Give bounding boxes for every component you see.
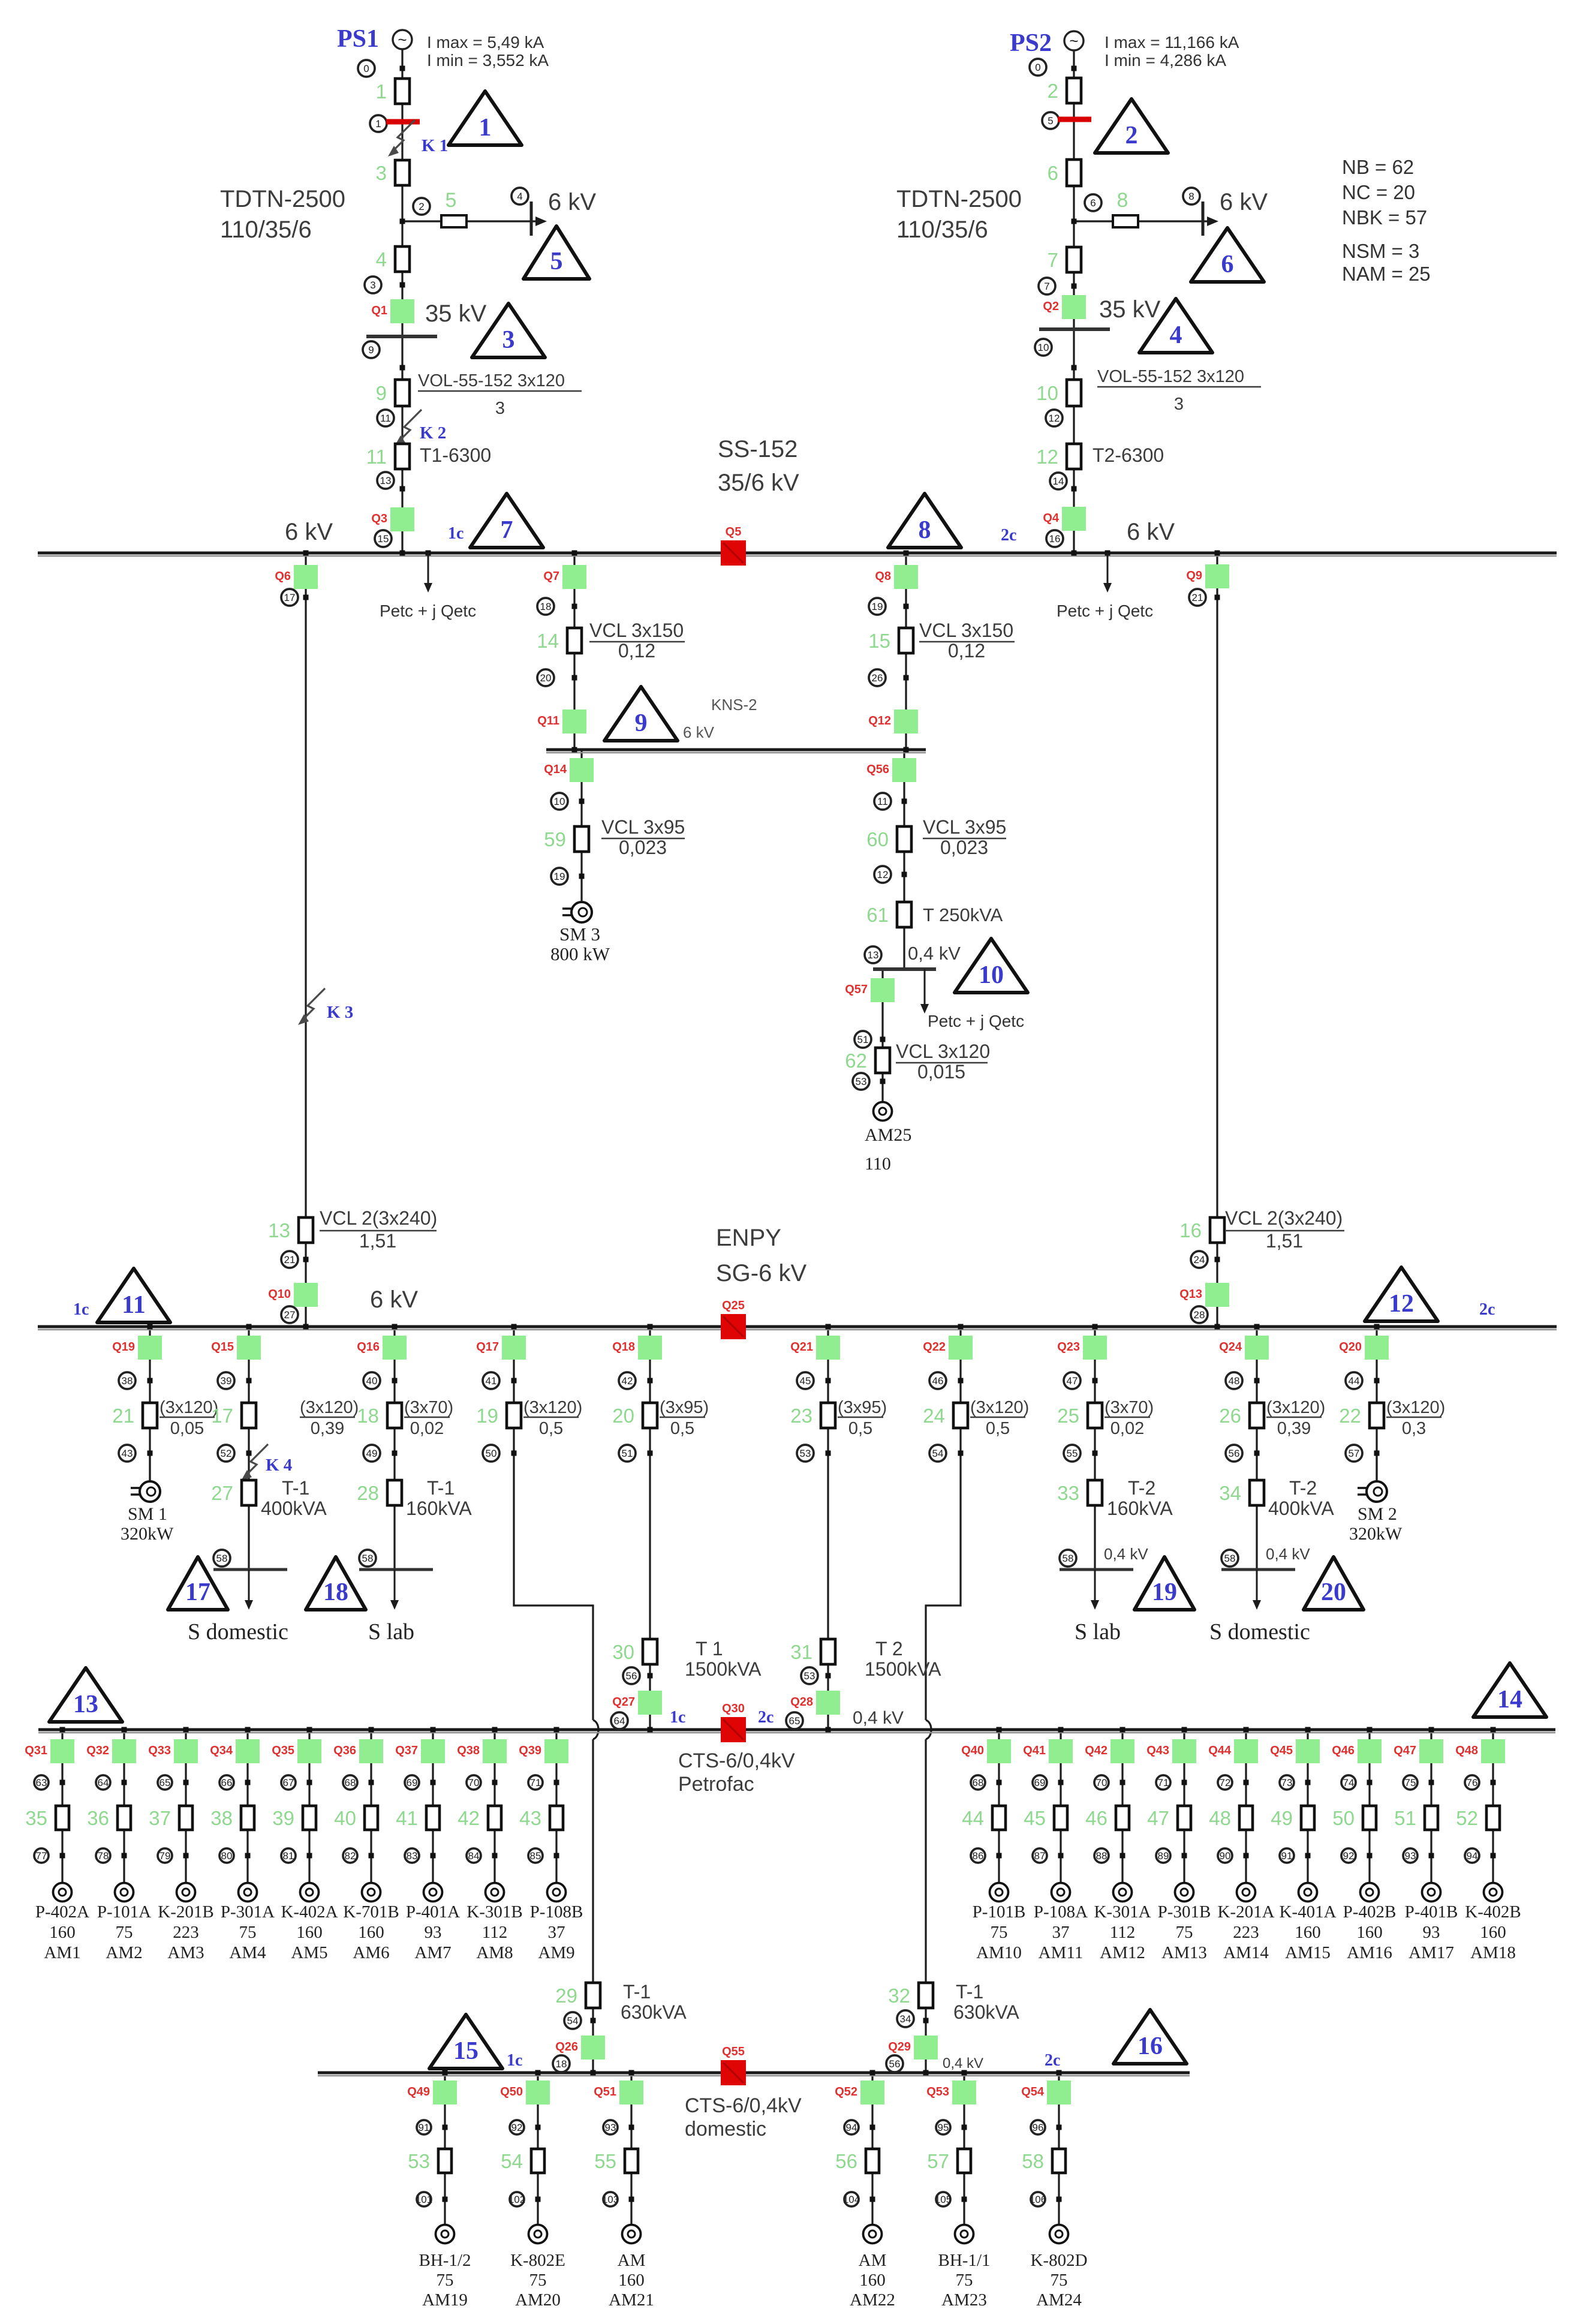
branch 44 [962, 1806, 1006, 1830]
svg-text:1c: 1c [670, 1708, 685, 1727]
label cable (3x120) Q15 [300, 1398, 359, 1438]
svg-text:60: 60 [866, 828, 889, 850]
label VCL 3x150 right [919, 620, 1015, 662]
junction [1305, 1780, 1311, 1785]
svg-text:0,5: 0,5 [539, 1419, 563, 1438]
svg-text:56: 56 [1229, 1448, 1240, 1459]
motor SM 1 [131, 1481, 160, 1502]
svg-text:94: 94 [846, 2122, 857, 2133]
svg-text:T 1: T 1 [696, 1638, 723, 1659]
node 10 [1035, 339, 1052, 356]
svg-text:75: 75 [529, 2271, 547, 2290]
breaker Q37 [395, 1739, 445, 1763]
node 39 [218, 1372, 234, 1389]
node 86 [971, 1848, 985, 1863]
svg-text:Q38: Q38 [457, 1744, 480, 1757]
node 15 [375, 530, 392, 547]
svg-text:Q34: Q34 [210, 1744, 233, 1757]
junction [902, 872, 907, 877]
svg-text:(3x120): (3x120) [159, 1398, 218, 1417]
junction [369, 1780, 374, 1785]
svg-text:10: 10 [1036, 382, 1058, 404]
junction [1491, 1853, 1496, 1859]
junction [572, 604, 577, 609]
junction on domestic bus [591, 2070, 596, 2076]
branch 3 [376, 160, 410, 185]
node 21 [281, 1251, 298, 1268]
junction [246, 1451, 252, 1456]
svg-text:AM20: AM20 [515, 2290, 561, 2310]
svg-text:71: 71 [1158, 1777, 1169, 1788]
svg-text:AM21: AM21 [609, 2290, 654, 2310]
svg-text:6 kV: 6 kV [1127, 519, 1175, 545]
svg-text:12: 12 [1389, 1290, 1414, 1318]
svg-text:VCL 3x150: VCL 3x150 [919, 620, 1013, 641]
svg-text:Q40: Q40 [961, 1744, 984, 1757]
wire load leg AM20 [537, 2073, 538, 2226]
svg-text:41: 41 [486, 1375, 497, 1387]
node 73 [1280, 1775, 1294, 1790]
motor SM 3 [562, 902, 592, 922]
junction [60, 1853, 65, 1859]
svg-text:17: 17 [284, 592, 296, 603]
junction [958, 1451, 964, 1456]
svg-text:Q2: Q2 [1043, 300, 1059, 313]
svg-text:630kVA: 630kVA [953, 2001, 1019, 2023]
junction on load bus [122, 1727, 127, 1733]
svg-text:K-301B: K-301B [467, 1902, 522, 1922]
branch 31 T2 [790, 1639, 835, 1664]
svg-text:400kVA: 400kVA [1268, 1498, 1334, 1519]
node 8 [1183, 188, 1200, 205]
wire ENPY feeder x=1084 [649, 1327, 651, 1730]
svg-text:Q42: Q42 [1085, 1744, 1107, 1757]
svg-text:Q27: Q27 [612, 1695, 635, 1709]
svg-text:Q52: Q52 [835, 2085, 857, 2098]
junction [148, 1451, 153, 1456]
svg-text:(3x70): (3x70) [404, 1398, 453, 1417]
svg-text:32: 32 [888, 1985, 910, 2007]
svg-text:5: 5 [1048, 115, 1053, 127]
branch 8 [1113, 189, 1138, 227]
svg-text:6 kV: 6 kV [285, 519, 333, 545]
marker triangle 8 [888, 494, 961, 548]
breaker Q7 [543, 565, 586, 589]
svg-text:(3x120): (3x120) [300, 1398, 359, 1417]
junction [648, 1673, 653, 1679]
svg-text:82: 82 [345, 1850, 356, 1862]
load arrow Petc left [424, 553, 432, 593]
svg-text:Q56: Q56 [866, 763, 889, 776]
junction [60, 1780, 65, 1785]
node 106 [1030, 2192, 1046, 2206]
node 11 [377, 410, 394, 426]
marker triangle 11 [97, 1268, 170, 1322]
svg-text:14: 14 [1053, 476, 1064, 487]
load AM9 [547, 1883, 566, 1902]
svg-text:VOL-55-152 3x120: VOL-55-152 3x120 [1097, 367, 1244, 386]
svg-text:92: 92 [511, 2122, 523, 2133]
wire SM2 tail [1376, 1453, 1377, 1481]
wire load leg AM22 [871, 2073, 873, 2226]
svg-text:2c: 2c [758, 1708, 774, 1727]
node 54 [564, 2012, 581, 2029]
wire load leg AM14 [1245, 1730, 1247, 1883]
load AM11 [1052, 1883, 1070, 1902]
junction [870, 2197, 875, 2202]
svg-text:Q45: Q45 [1270, 1744, 1293, 1757]
breaker Q39 [519, 1739, 568, 1763]
branch 34 [1219, 1480, 1264, 1505]
svg-text:Q14: Q14 [544, 763, 567, 776]
wire ENPY feeder x=1381 [827, 1327, 829, 1730]
node 24 [1191, 1251, 1208, 1268]
junction on ENPY bus [1093, 1324, 1098, 1330]
branch 12 [1036, 444, 1081, 469]
svg-text:57: 57 [927, 2150, 949, 2172]
svg-text:AM18: AM18 [1470, 1943, 1516, 1962]
branch 1 [376, 79, 410, 104]
node 13 [865, 946, 881, 963]
junction [629, 2197, 634, 2202]
junction on load bus [245, 1727, 251, 1733]
load arrow S domestic [1253, 1570, 1261, 1610]
junction on domestic bus [443, 2070, 448, 2076]
load AM22 [863, 2225, 882, 2244]
junction [904, 604, 909, 609]
svg-text:71: 71 [530, 1777, 541, 1788]
svg-text:Q6: Q6 [275, 570, 291, 583]
wire load leg AM10 [998, 1730, 1000, 1883]
svg-text:27: 27 [284, 1309, 296, 1321]
wire load leg AM16 [1368, 1730, 1370, 1883]
svg-text:Q39: Q39 [519, 1744, 541, 1757]
node 58 [1060, 1550, 1076, 1567]
breaker Q19 [112, 1336, 162, 1360]
svg-text:160: 160 [1295, 1923, 1321, 1942]
svg-text:0,4 kV: 0,4 kV [1104, 1545, 1148, 1563]
junction on ENPY bus [1374, 1324, 1380, 1330]
marker triangle 7 [470, 494, 543, 548]
svg-text:54: 54 [501, 2150, 523, 2172]
svg-text:P-101B: P-101B [973, 1902, 1026, 1922]
svg-text:20: 20 [612, 1405, 634, 1427]
svg-text:18: 18 [540, 601, 552, 612]
branch 17 [211, 1403, 256, 1428]
svg-text:29: 29 [555, 1985, 577, 2007]
svg-text:50: 50 [486, 1448, 497, 1459]
svg-text:39: 39 [272, 1807, 294, 1829]
branch 11 [366, 444, 410, 469]
node 81 [281, 1848, 296, 1863]
breaker Q18 [612, 1336, 662, 1360]
svg-text:(3x120): (3x120) [970, 1398, 1029, 1417]
node 38 [119, 1372, 136, 1389]
svg-text:37: 37 [548, 1923, 565, 1942]
svg-text:6: 6 [1048, 162, 1058, 184]
svg-text:6: 6 [1090, 197, 1096, 209]
svg-text:T1-6300: T1-6300 [420, 444, 491, 466]
junction on load bus [369, 1727, 374, 1733]
svg-text:TDTN-2500: TDTN-2500 [220, 186, 345, 212]
svg-text:PS2: PS2 [1010, 29, 1052, 57]
junction on ENPY bus [1254, 1324, 1260, 1330]
svg-text:S domestic: S domestic [188, 1619, 288, 1644]
svg-text:95: 95 [938, 2122, 949, 2133]
node 66 [219, 1775, 234, 1790]
fault marker bar at node 1 [386, 119, 420, 125]
svg-text:5: 5 [446, 189, 457, 212]
junction on domestic bus [629, 2070, 634, 2076]
svg-text:T-1: T-1 [427, 1477, 455, 1499]
wire branch 5 horizontal to 6kV stub [402, 220, 543, 222]
label VCL 3x150 left [589, 620, 685, 662]
branch 42 [458, 1806, 501, 1830]
svg-text:7: 7 [501, 516, 513, 544]
svg-text:Q18: Q18 [612, 1340, 635, 1354]
junction [307, 1780, 312, 1785]
node 34 [897, 2010, 914, 2027]
svg-text:19: 19 [554, 871, 565, 882]
branch 22 [1339, 1403, 1384, 1428]
svg-text:AM17: AM17 [1409, 1943, 1454, 1962]
svg-text:Q49: Q49 [407, 2085, 430, 2098]
bus SS-152 6 kV [38, 553, 1557, 556]
branch 38 [210, 1806, 254, 1830]
svg-text:160: 160 [618, 2271, 645, 2290]
node 92 [1341, 1848, 1356, 1863]
junction [148, 1378, 153, 1384]
label cable (3x120) Q17 [523, 1398, 582, 1438]
branch 32 T-1 630 [888, 1983, 933, 2008]
svg-text:VCL 3x120: VCL 3x120 [896, 1041, 990, 1062]
breaker Q35 [272, 1739, 321, 1763]
svg-text:K-402A: K-402A [281, 1902, 338, 1922]
node 70 [1094, 1775, 1109, 1790]
breaker Q31 [25, 1739, 74, 1763]
node 102 [508, 2192, 525, 2206]
node 74 [1341, 1775, 1356, 1790]
svg-text:53: 53 [804, 1670, 815, 1682]
junction [826, 1378, 831, 1384]
svg-text:AM1: AM1 [44, 1943, 80, 1962]
junction on load bus [183, 1727, 189, 1733]
section breaker Q55 [721, 2045, 746, 2085]
svg-text:37: 37 [1052, 1923, 1070, 1942]
node 67 [281, 1775, 296, 1790]
junction [554, 1780, 559, 1785]
svg-text:0,4 kV: 0,4 kV [1266, 1545, 1310, 1563]
junction on load bus [997, 1727, 1002, 1733]
svg-text:K-402B: K-402B [1465, 1902, 1521, 1922]
svg-text:1,51: 1,51 [1266, 1230, 1303, 1252]
svg-text:0,39: 0,39 [311, 1419, 344, 1438]
svg-text:P-301B: P-301B [1158, 1902, 1211, 1922]
node 56 [1226, 1445, 1242, 1462]
branch 24 [923, 1403, 968, 1428]
svg-text:AM11: AM11 [1039, 1943, 1084, 1962]
wire load leg AM2 [123, 1730, 125, 1883]
svg-text:39: 39 [221, 1375, 232, 1387]
wire PS2 source drop [1073, 49, 1075, 553]
junction [1182, 1780, 1187, 1785]
bus CTS-6/0.4kV Petrofac [38, 1730, 1555, 1733]
load AM6 [362, 1883, 381, 1902]
svg-text:75: 75 [1051, 2271, 1068, 2290]
fault K 1 [388, 120, 448, 157]
svg-text:102: 102 [508, 2194, 525, 2205]
node 52 [218, 1445, 234, 1462]
svg-text:27: 27 [211, 1482, 233, 1504]
svg-text:75: 75 [1405, 1777, 1416, 1788]
svg-text:48: 48 [1209, 1807, 1231, 1829]
svg-text:Q5: Q5 [726, 525, 742, 539]
load AM1 [53, 1883, 72, 1902]
wire ENPY feeder x=415 [248, 1327, 249, 1570]
svg-text:Q8: Q8 [875, 570, 891, 583]
svg-text:0,4 kV: 0,4 kV [908, 943, 961, 964]
svg-text:3: 3 [370, 279, 375, 291]
load arrow S domestic [245, 1570, 253, 1610]
junction [997, 1780, 1002, 1785]
junction [122, 1780, 127, 1785]
junction [122, 1853, 127, 1859]
svg-text:30: 30 [612, 1641, 634, 1663]
svg-text:Petc + j Qetc: Petc + j Qetc [928, 1012, 1024, 1030]
svg-text:28: 28 [357, 1482, 379, 1504]
svg-text:SM 2: SM 2 [1358, 1504, 1397, 1524]
wire Q17 step feeder lower [592, 1739, 594, 2073]
svg-text:35/6 kV: 35/6 kV [718, 470, 799, 496]
svg-text:Q33: Q33 [148, 1744, 171, 1757]
6 kV stub right [1202, 202, 1205, 236]
node 3 [365, 276, 381, 293]
svg-text:53: 53 [800, 1448, 811, 1459]
junction on load bus [307, 1727, 312, 1733]
svg-text:0,3: 0,3 [1402, 1419, 1426, 1438]
node 65 [158, 1775, 172, 1790]
svg-text:13: 13 [380, 475, 392, 486]
svg-text:65: 65 [789, 1715, 800, 1727]
node 42 [619, 1372, 636, 1389]
svg-text:2c: 2c [1001, 526, 1016, 545]
svg-text:domestic: domestic [685, 2118, 766, 2140]
load AM14 [1237, 1883, 1256, 1902]
junction [1057, 2125, 1062, 2130]
label cable (3x120) Q22 [970, 1398, 1029, 1438]
breaker Q51 [594, 2081, 643, 2104]
node 93 [1403, 1848, 1417, 1863]
svg-text:Q30: Q30 [722, 1702, 745, 1715]
junction [880, 1037, 886, 1042]
svg-text:14: 14 [537, 630, 559, 652]
svg-text:NB = 62: NB = 62 [1342, 156, 1414, 178]
svg-text:34: 34 [900, 2013, 911, 2025]
svg-text:57: 57 [1349, 1448, 1360, 1459]
node 69 [1033, 1775, 1047, 1790]
svg-text:19: 19 [476, 1405, 498, 1427]
load AM3 [177, 1883, 195, 1902]
svg-text:K 2: K 2 [420, 423, 446, 443]
source PS2 [1064, 31, 1084, 50]
wire branch 8 horizontal to 6kV stub [1074, 220, 1214, 222]
svg-text:Q17: Q17 [476, 1340, 499, 1354]
label VCL 3x120 [896, 1041, 990, 1083]
svg-text:45: 45 [1024, 1807, 1046, 1829]
junction [392, 1451, 398, 1456]
breaker Q38 [457, 1739, 507, 1763]
node 103 [602, 2192, 619, 2206]
section breaker Q30 [721, 1702, 746, 1742]
branch 4 [376, 246, 410, 272]
wire load leg AM17 [1430, 1730, 1432, 1883]
svg-text:P-108B: P-108B [530, 1902, 583, 1922]
svg-text:AM9: AM9 [538, 1943, 574, 1962]
junction [535, 2125, 541, 2130]
svg-text:68: 68 [973, 1777, 984, 1788]
svg-text:SG-6 kV: SG-6 kV [716, 1260, 806, 1286]
svg-text:P-402A: P-402A [35, 1902, 89, 1922]
svg-text:38: 38 [210, 1807, 233, 1829]
breaker Q57 [845, 978, 895, 1002]
svg-text:(3x70): (3x70) [1104, 1398, 1154, 1417]
svg-text:Q28: Q28 [790, 1695, 813, 1709]
svg-text:68: 68 [345, 1777, 356, 1788]
fault K 4 [241, 1444, 292, 1481]
node 65 [786, 1712, 803, 1729]
svg-text:23: 23 [790, 1405, 812, 1427]
breaker Q17 [476, 1336, 526, 1360]
svg-text:1c: 1c [507, 2051, 522, 2070]
branch 6 [1048, 160, 1081, 186]
svg-text:Q11: Q11 [537, 714, 559, 727]
svg-text:9: 9 [635, 709, 648, 737]
junction [1254, 1378, 1260, 1384]
node 53 [801, 1667, 818, 1684]
svg-text:Q10: Q10 [268, 1288, 291, 1301]
junction [492, 1853, 498, 1859]
svg-text:79: 79 [159, 1850, 171, 1862]
svg-text:~: ~ [398, 31, 407, 49]
breaker Q23 [1057, 1336, 1107, 1360]
node 82 [343, 1848, 357, 1863]
svg-text:160: 160 [1480, 1923, 1506, 1942]
svg-text:75: 75 [1176, 1923, 1193, 1942]
junction [1057, 2197, 1062, 2202]
marker triangle 16 [1113, 2010, 1187, 2064]
node 54 [929, 1445, 946, 1462]
junction [579, 799, 585, 804]
node 58 [213, 1550, 230, 1567]
junction [826, 1673, 831, 1679]
svg-text:Q3: Q3 [371, 512, 387, 525]
junction node 6 [1072, 219, 1077, 224]
svg-text:P-401A: P-401A [406, 1902, 460, 1922]
breaker Q3 [371, 507, 414, 531]
svg-text:160: 160 [296, 1923, 323, 1942]
load AM18 [1484, 1883, 1503, 1902]
breaker Q41 [1023, 1739, 1073, 1763]
branch 18 [357, 1403, 402, 1428]
svg-text:VCL 2(3x240): VCL 2(3x240) [320, 1207, 437, 1229]
junction on bus1 [426, 551, 431, 556]
node 64 [96, 1775, 110, 1790]
svg-text:0,12: 0,12 [948, 640, 985, 662]
svg-text:69: 69 [1034, 1777, 1046, 1788]
svg-text:AM22: AM22 [850, 2290, 895, 2310]
wire load leg AM1 [61, 1730, 63, 1883]
junction on load bus [1120, 1727, 1125, 1733]
